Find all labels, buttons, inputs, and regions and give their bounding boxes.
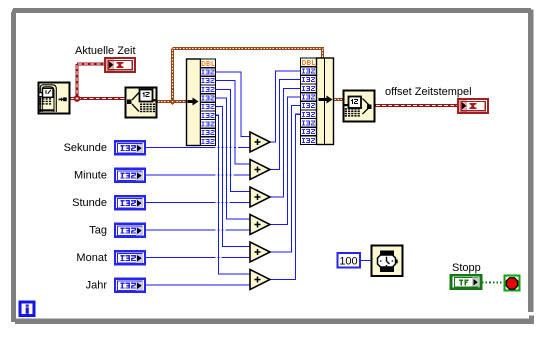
bundle output arrow <box>319 96 333 104</box>
wire from I32 control 2 to add node 2 <box>146 174 250 176</box>
add node 6 (+) <box>250 270 270 290</box>
svg-text:Minute: Minute <box>74 170 107 182</box>
wire from Unbundle row 4 to add node 4 <box>216 98 251 219</box>
wire crossing gaps <box>216 147 239 259</box>
svg-text:Stopp: Stopp <box>452 262 481 274</box>
wire from add node 3 to Bundle row 3 <box>270 88 301 197</box>
unbundle terminal column <box>201 59 216 146</box>
wire timestamp: GetDateTime to ToDouble <box>70 97 125 100</box>
add node 1 (+) <box>250 132 270 152</box>
stop button icon <box>505 276 520 291</box>
wire timestamp: ToTimeStamp to offset indicator <box>375 104 457 107</box>
wire 100 constant to Wait node <box>361 260 371 262</box>
wire timestamp branch up to Aktuelle Zeit <box>76 64 79 99</box>
control terminal Stunde (I32) <box>115 196 145 209</box>
unbundle input arrow <box>188 98 199 106</box>
wire Stopp TF to stop button (boolean dotted) <box>482 282 504 284</box>
svg-text:Sekunde: Sekunde <box>64 142 107 154</box>
add node 5 (+) <box>250 242 270 262</box>
wire from Unbundle row 3 to add node 3 <box>216 89 251 191</box>
wire from Unbundle row 1 to add node 1 <box>216 72 251 137</box>
To Time Stamp node <box>344 91 375 122</box>
wire from I32 control 3 to add node 3 <box>146 202 250 204</box>
constant 100 <box>338 253 361 268</box>
add node 4 (+) <box>250 215 270 235</box>
wire DBL: Bundle to ToTimeStamp <box>334 98 344 101</box>
wire from Unbundle row 2 to add node 2 <box>216 81 251 164</box>
control terminal Tag (I32) <box>115 224 145 237</box>
wire from I32 control 4 to add node 4 <box>146 229 250 231</box>
control terminal Monat (I32) <box>115 251 145 264</box>
bundle node terminal column <box>301 58 317 145</box>
Get Date/Time In Seconds node <box>39 83 70 114</box>
svg-text:100: 100 <box>339 256 357 268</box>
junction DBL wire <box>169 98 176 105</box>
wire from add node 4 to Bundle row 4 <box>270 97 301 225</box>
To Double Precision Float node <box>126 88 157 118</box>
wire timestamp into Aktuelle Zeit terminal <box>77 63 104 66</box>
bundle node body <box>317 58 334 145</box>
wire from add node 2 to Bundle row 2 <box>270 80 301 170</box>
add node 3 (+) <box>250 187 270 207</box>
control terminal Sekunde (I32) <box>115 141 145 154</box>
svg-text:Stunde: Stunde <box>72 197 107 209</box>
svg-text:Monat: Monat <box>76 252 107 264</box>
wire DBL branch vertical up <box>171 49 174 102</box>
svg-text:offset Zeitstempel: offset Zeitstempel <box>385 86 472 98</box>
VI documentation i icon <box>20 302 34 316</box>
wire from I32 control 5 to add node 5 <box>146 257 250 259</box>
wire from Unbundle row 6 to add node 6 <box>216 115 251 274</box>
wire from add node 6 to Bundle row 6 <box>270 114 301 279</box>
control terminal Stopp (TF boolean) <box>451 275 481 289</box>
add node 2 (+) <box>250 160 270 180</box>
control terminal Minute (I32) <box>115 169 145 182</box>
Wait (ms) node with 100 <box>372 246 403 277</box>
wire DBL top horizontal run <box>173 47 325 50</box>
wire DBL: ToDouble to Unbundle input <box>157 100 187 103</box>
wire from add node 1 to Bundle row 1 <box>270 71 301 142</box>
wire DBL down into Bundle top <box>321 49 324 59</box>
unbundle node body <box>187 59 201 146</box>
svg-text:Jahr: Jahr <box>86 280 108 292</box>
wire from I32 control 1 to add node 1 <box>146 147 250 149</box>
wire from add node 5 to Bundle row 5 <box>270 106 301 252</box>
svg-text:Tag: Tag <box>89 225 107 237</box>
wire from Unbundle row 5 to add node 5 <box>216 107 251 247</box>
control terminal Jahr (I32) <box>115 279 145 292</box>
wire from I32 control 6 to add node 6 <box>146 284 250 286</box>
junction timestamp wire <box>74 95 81 102</box>
indicator terminal Aktuelle Zeit (timestamp) <box>105 58 135 72</box>
svg-text:Aktuelle Zeit: Aktuelle Zeit <box>75 45 136 57</box>
indicator terminal offset Zeitstempel (timestamp) <box>458 99 488 113</box>
